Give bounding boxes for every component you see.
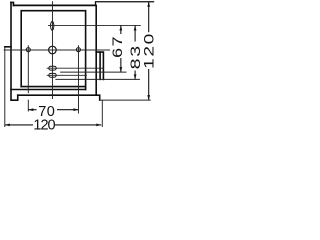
svg-text:120: 120	[141, 32, 156, 69]
svg-text:67: 67	[111, 35, 126, 58]
svg-text:120: 120	[33, 118, 55, 134]
